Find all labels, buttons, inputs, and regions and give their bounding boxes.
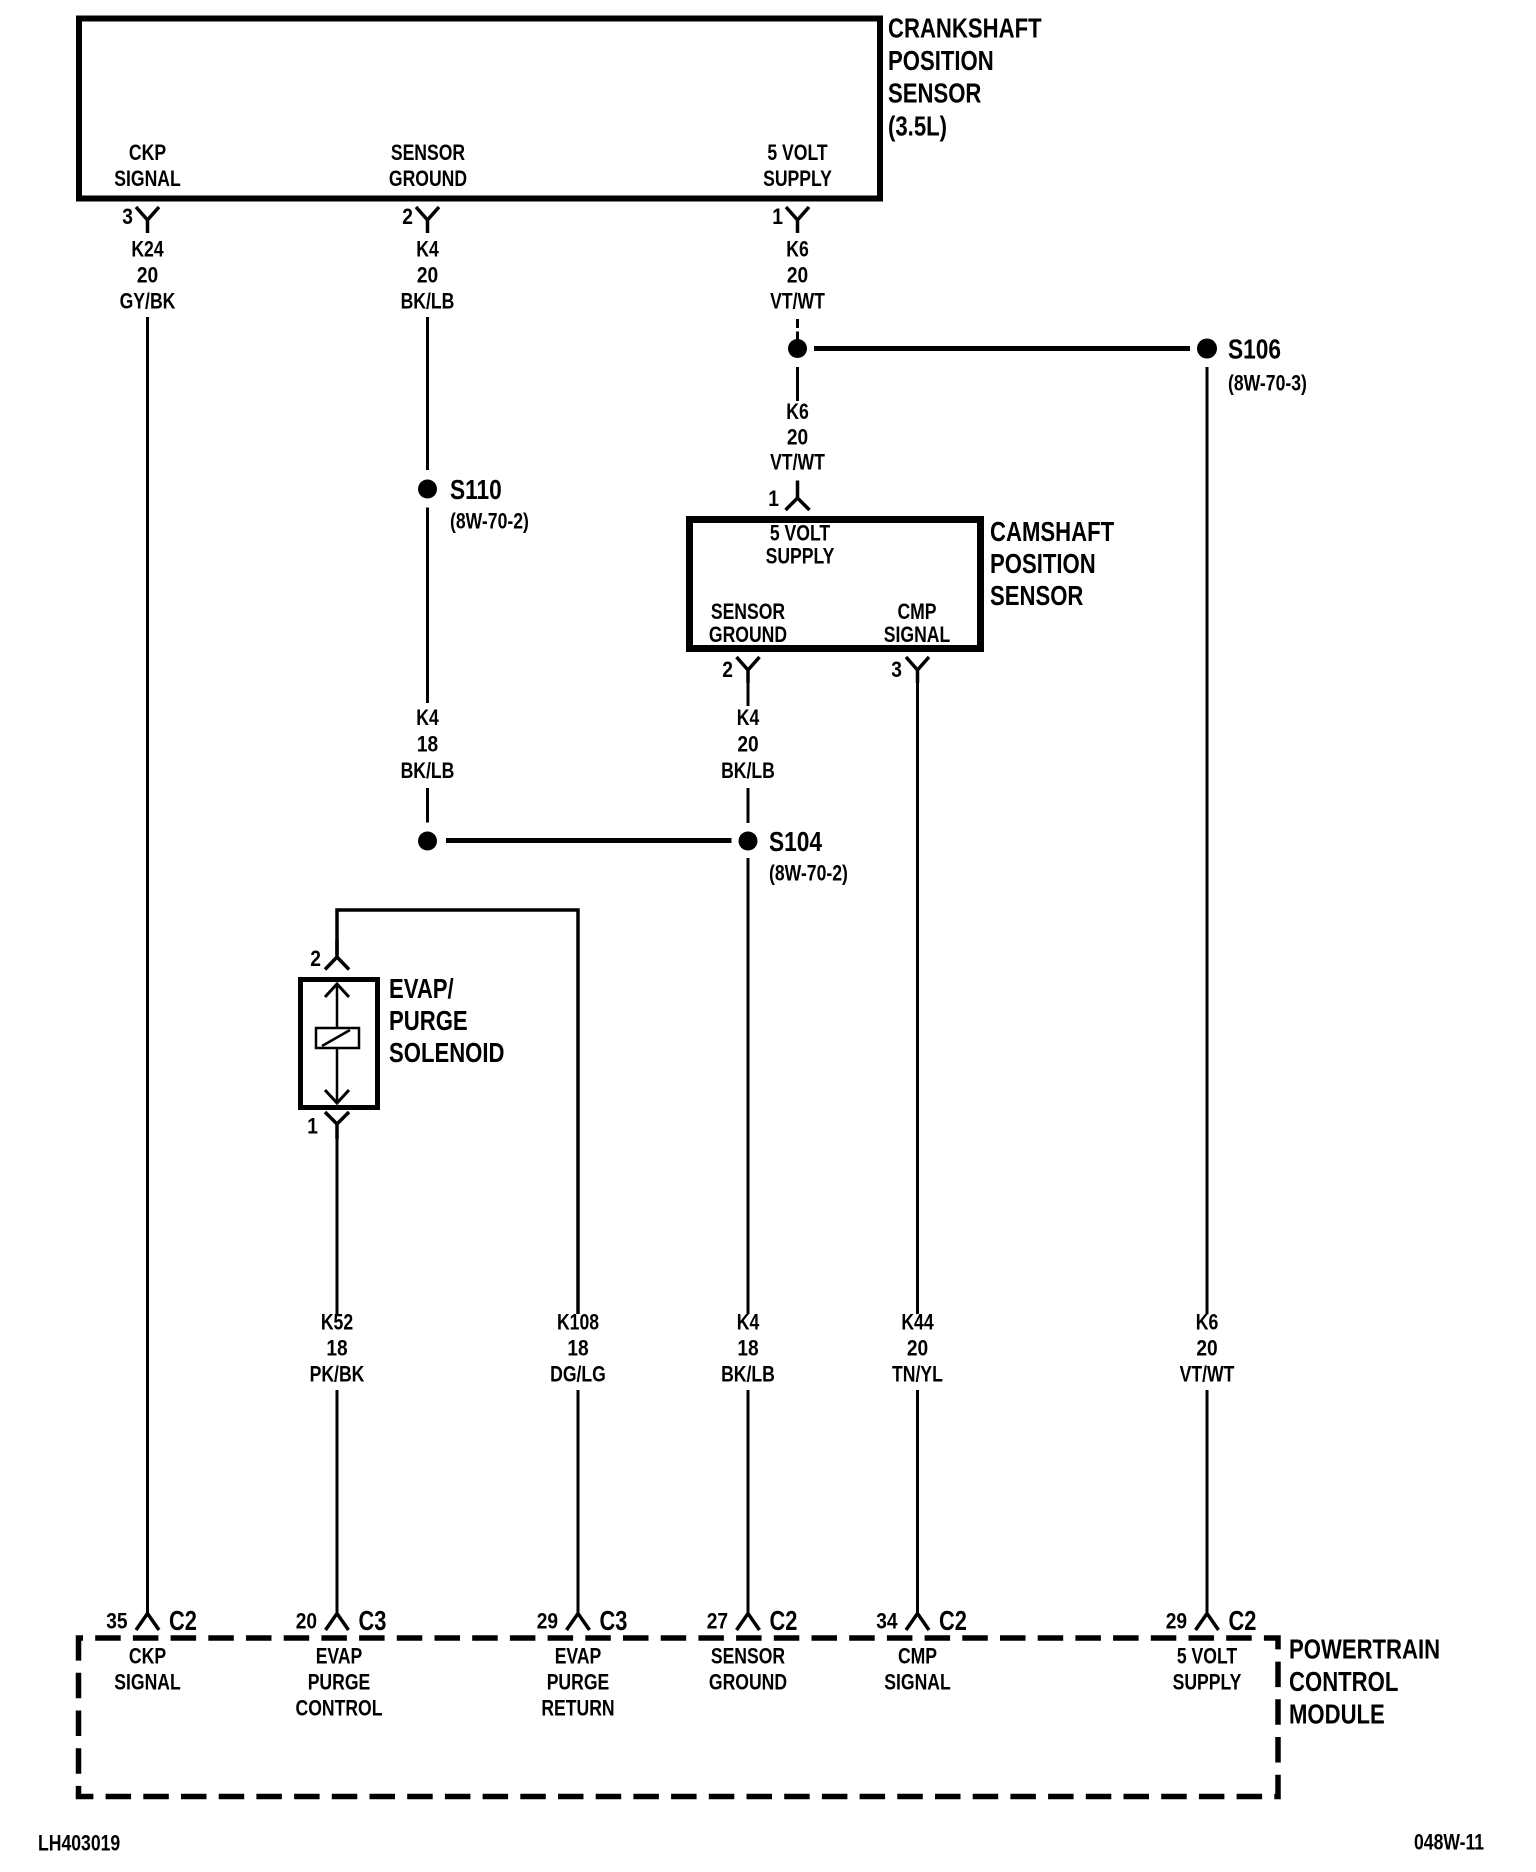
- svg-text:PURGE: PURGE: [389, 1005, 468, 1036]
- svg-text:CKP: CKP: [129, 1644, 166, 1669]
- svg-text:SIGNAL: SIGNAL: [114, 1670, 181, 1695]
- svg-text:1: 1: [768, 486, 779, 511]
- svg-text:C2: C2: [939, 1605, 967, 1636]
- svg-text:TN/YL: TN/YL: [892, 1362, 943, 1387]
- wire K4 sensor ground upper segment: [426, 317, 429, 470]
- camshaft position sensor box: [690, 520, 981, 649]
- svg-text:5 VOLT: 5 VOLT: [1177, 1644, 1238, 1669]
- svg-text:20: 20: [907, 1336, 928, 1361]
- wire cam sensor ground upper: [747, 683, 750, 706]
- svg-text:(3.5L): (3.5L): [888, 111, 947, 142]
- wire K24 CKP signal full drop: [146, 317, 149, 1614]
- svg-text:3: 3: [891, 657, 902, 682]
- PCM pin 20 C3: [326, 1614, 349, 1631]
- pin 1 connector (EVAP solenoid): [325, 1112, 349, 1139]
- svg-text:SENSOR: SENSOR: [391, 140, 465, 165]
- pin 2 connector (sensor ground): [416, 207, 439, 233]
- svg-text:PK/BK: PK/BK: [310, 1362, 365, 1387]
- svg-text:S106: S106: [1228, 334, 1281, 365]
- svg-text:29: 29: [537, 1609, 558, 1634]
- svg-text:CONTROL: CONTROL: [1289, 1666, 1398, 1697]
- svg-text:K44: K44: [901, 1310, 934, 1335]
- svg-text:CKP: CKP: [129, 140, 166, 165]
- svg-text:K24: K24: [131, 237, 164, 262]
- svg-text:C3: C3: [600, 1605, 628, 1636]
- svg-text:C3: C3: [359, 1605, 387, 1636]
- svg-text:CONTROL: CONTROL: [296, 1696, 383, 1721]
- junction node at S106 link left end: [788, 339, 807, 358]
- svg-text:5 VOLT: 5 VOLT: [770, 521, 831, 546]
- svg-text:POSITION: POSITION: [990, 548, 1096, 579]
- svg-text:SENSOR: SENSOR: [888, 78, 981, 109]
- svg-text:POSITION: POSITION: [888, 45, 994, 76]
- wire K6 below junction: [796, 367, 799, 401]
- svg-text:GROUND: GROUND: [709, 622, 787, 647]
- splice S104: [739, 832, 758, 851]
- pin 3 connector (CKP signal): [136, 207, 159, 233]
- svg-text:20: 20: [417, 263, 438, 288]
- svg-text:K6: K6: [1196, 1310, 1219, 1335]
- wire EVAP loop: solenoid pin 2 up, across, down to purge return: [337, 910, 578, 1314]
- svg-text:K6: K6: [786, 237, 809, 262]
- svg-text:EVAP: EVAP: [555, 1644, 602, 1669]
- solenoid coil element: [316, 1028, 359, 1048]
- PCM pin 27 C2: [737, 1614, 760, 1631]
- svg-text:BK/LB: BK/LB: [721, 1362, 775, 1387]
- svg-text:SUPPLY: SUPPLY: [766, 544, 835, 569]
- svg-text:1: 1: [772, 204, 783, 229]
- svg-text:BK/LB: BK/LB: [401, 289, 455, 314]
- svg-text:VT/WT: VT/WT: [770, 450, 825, 475]
- wire horizontal link to S104: [446, 838, 732, 843]
- svg-text:SOLENOID: SOLENOID: [389, 1037, 505, 1068]
- wire EVAP purge return to PCM pin 29: [577, 1390, 580, 1614]
- solenoid internal wire: [336, 985, 339, 1103]
- pin 2 connector (cam sensor ground): [737, 657, 760, 683]
- svg-text:GROUND: GROUND: [389, 166, 467, 191]
- svg-text:EVAP: EVAP: [316, 1644, 363, 1669]
- svg-text:SIGNAL: SIGNAL: [114, 166, 181, 191]
- svg-text:(8W-70-2): (8W-70-2): [769, 861, 848, 886]
- svg-text:18: 18: [737, 1336, 758, 1361]
- svg-text:GY/BK: GY/BK: [120, 289, 176, 314]
- svg-text:CRANKSHAFT: CRANKSHAFT: [888, 13, 1042, 44]
- svg-text:S104: S104: [769, 826, 822, 857]
- powertrain control module dashed box: [79, 1638, 1279, 1797]
- svg-text:20: 20: [787, 425, 808, 450]
- svg-text:C2: C2: [1229, 1605, 1257, 1636]
- svg-text:CMP: CMP: [897, 599, 936, 624]
- svg-text:K4: K4: [416, 705, 439, 730]
- svg-text:K6: K6: [786, 399, 809, 424]
- svg-text:CMP: CMP: [898, 1644, 937, 1669]
- PCM pin 34 C2: [906, 1614, 929, 1631]
- svg-text:1: 1: [307, 1114, 318, 1139]
- pin 1 connector (5 volt supply): [786, 207, 809, 233]
- svg-text:20: 20: [1196, 1336, 1217, 1361]
- svg-text:PURGE: PURGE: [547, 1670, 610, 1695]
- wire K52 EVAP purge control drop: [336, 1139, 339, 1314]
- svg-text:PURGE: PURGE: [308, 1670, 371, 1695]
- wire sensor ground lower segment to junction: [426, 788, 429, 823]
- svg-text:20: 20: [296, 1609, 317, 1634]
- svg-text:SIGNAL: SIGNAL: [884, 1670, 951, 1695]
- junction node at S104 link left end: [418, 832, 437, 851]
- svg-text:BK/LB: BK/LB: [401, 758, 455, 783]
- svg-text:BK/LB: BK/LB: [721, 758, 775, 783]
- svg-text:S110: S110: [450, 474, 502, 505]
- svg-text:(8W-70-2): (8W-70-2): [450, 509, 529, 534]
- pin 2 connector into EVAP solenoid: [325, 940, 349, 970]
- svg-text:048W-11: 048W-11: [1414, 1830, 1484, 1855]
- svg-text:K4: K4: [737, 1310, 760, 1335]
- svg-text:K108: K108: [557, 1310, 599, 1335]
- svg-text:18: 18: [326, 1336, 347, 1361]
- wire CMP signal to PCM pin 34: [916, 1390, 919, 1614]
- svg-text:(8W-70-3): (8W-70-3): [1228, 371, 1307, 396]
- wire EVAP purge control to PCM pin 20: [336, 1390, 339, 1614]
- wire K44 CMP signal drop: [916, 683, 919, 1314]
- svg-text:SIGNAL: SIGNAL: [884, 622, 951, 647]
- solenoid arrow down: [325, 1090, 349, 1103]
- svg-text:SUPPLY: SUPPLY: [1173, 1670, 1242, 1695]
- svg-text:35: 35: [106, 1609, 127, 1634]
- EVAP purge solenoid box: [301, 980, 378, 1108]
- svg-text:20: 20: [787, 263, 808, 288]
- svg-text:18: 18: [417, 732, 438, 757]
- crankshaft position sensor box: [79, 19, 880, 199]
- svg-text:GROUND: GROUND: [709, 1670, 787, 1695]
- svg-text:34: 34: [876, 1609, 898, 1634]
- wire 5 volt supply to PCM pin 29: [1206, 1390, 1209, 1614]
- svg-text:C2: C2: [169, 1605, 197, 1636]
- svg-text:EVAP/: EVAP/: [389, 973, 454, 1004]
- splice S110: [418, 480, 437, 499]
- svg-text:K52: K52: [321, 1310, 353, 1335]
- svg-text:POWERTRAIN: POWERTRAIN: [1289, 1634, 1440, 1665]
- splice S106: [1197, 339, 1217, 359]
- svg-text:2: 2: [722, 657, 733, 682]
- svg-text:3: 3: [122, 204, 133, 229]
- svg-text:RETURN: RETURN: [541, 1696, 614, 1721]
- solenoid arrow up: [325, 984, 349, 997]
- svg-text:20: 20: [137, 263, 158, 288]
- svg-text:SENSOR: SENSOR: [711, 599, 785, 624]
- pin 3 connector (CMP signal): [906, 657, 929, 683]
- PCM pin 29 C3: [567, 1614, 590, 1631]
- svg-text:K4: K4: [416, 237, 439, 262]
- svg-text:2: 2: [310, 946, 321, 971]
- svg-text:C2: C2: [770, 1605, 798, 1636]
- svg-text:VT/WT: VT/WT: [770, 289, 825, 314]
- wire sensor ground to PCM pin 27: [747, 1390, 750, 1614]
- PCM pin 29 C2: [1196, 1614, 1219, 1631]
- svg-text:20: 20: [737, 732, 758, 757]
- svg-text:LH403019: LH403019: [38, 1831, 120, 1856]
- svg-text:18: 18: [567, 1336, 588, 1361]
- svg-text:VT/WT: VT/WT: [1180, 1362, 1235, 1387]
- pin 1 connector into camshaft sensor: [786, 481, 810, 511]
- svg-text:2: 2: [402, 204, 413, 229]
- svg-text:SENSOR: SENSOR: [711, 1644, 785, 1669]
- svg-text:29: 29: [1166, 1609, 1187, 1634]
- wire cam sensor ground lower through S104 to label: [747, 788, 750, 823]
- wire K6 5 volt dashed segment: [796, 319, 799, 340]
- PCM pin 35 C2: [136, 1614, 159, 1631]
- svg-text:5 VOLT: 5 VOLT: [767, 140, 828, 165]
- svg-text:SENSOR: SENSOR: [990, 580, 1083, 611]
- svg-text:SUPPLY: SUPPLY: [763, 166, 832, 191]
- wire K6 S106 branch drop: [1206, 367, 1209, 1314]
- svg-text:CAMSHAFT: CAMSHAFT: [990, 516, 1114, 547]
- svg-text:K4: K4: [737, 705, 760, 730]
- svg-text:27: 27: [707, 1609, 728, 1634]
- svg-text:DG/LG: DG/LG: [550, 1362, 606, 1387]
- wire horizontal link to S106: [814, 346, 1190, 351]
- svg-text:MODULE: MODULE: [1289, 1699, 1385, 1730]
